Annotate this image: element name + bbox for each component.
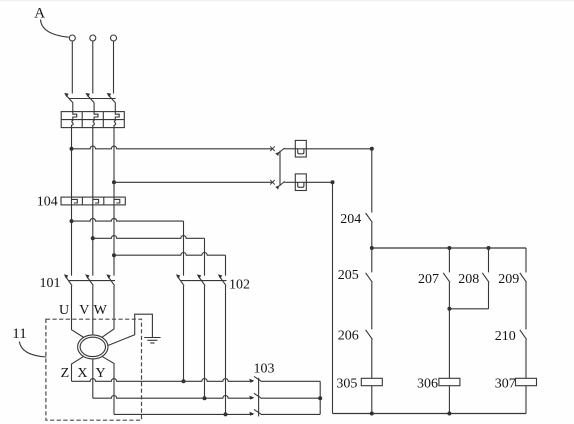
label 209: [498, 272, 519, 287]
contactor 102 pole 3: [218, 274, 226, 285]
label V: [79, 303, 89, 318]
contactor 101 pole 3: [106, 274, 114, 285]
wire tap C: [114, 253, 226, 276]
leader curve to terminal A: [41, 20, 69, 38]
terminal L3: [111, 35, 117, 41]
junction FU1 corner: [370, 147, 374, 151]
wire X lead: [92, 359, 94, 399]
contact 204: [366, 213, 373, 223]
motor M inner: [80, 337, 105, 356]
disconnect linkage bar: [69, 98, 116, 100]
wire branch1 to junction: [371, 223, 373, 248]
wire L1 drop: [71, 41, 73, 93]
contactor 103 linkage: [258, 378, 260, 417]
control feed contact lower: [270, 180, 295, 190]
wire FU2 to rail: [306, 181, 332, 183]
junction tap B: [91, 236, 95, 240]
svg-text:102: 102: [229, 277, 250, 292]
wire tap A: [72, 218, 184, 275]
svg-text:V: V: [79, 303, 89, 318]
label 206: [338, 329, 359, 344]
node A label: [34, 6, 45, 22]
wire 206 upper: [371, 282, 373, 329]
svg-text:11: 11: [12, 326, 26, 342]
contactor 102 pole 1: [176, 274, 184, 285]
svg-text:209: 209: [498, 272, 519, 287]
svg-text:101: 101: [40, 276, 61, 291]
label 11: [12, 326, 26, 342]
wire phase2 mid: [92, 128, 94, 198]
junction 102-2: [203, 396, 207, 400]
label 101: [40, 276, 61, 291]
label 103: [254, 361, 275, 376]
svg-text:205: 205: [338, 268, 359, 283]
coil 306: [439, 378, 460, 385]
junction 207 join: [447, 307, 451, 311]
coil 307: [516, 378, 537, 385]
label X: [77, 366, 87, 381]
svg-text:306: 306: [417, 377, 438, 392]
wire 207-208 join: [449, 308, 488, 310]
label Y: [96, 366, 106, 381]
wire 208 upper: [488, 248, 490, 272]
svg-text:210: 210: [495, 329, 516, 344]
contact 205: [366, 273, 373, 283]
svg-text:W: W: [94, 303, 108, 318]
svg-text:206: 206: [338, 329, 359, 344]
wire 306 to bus: [448, 386, 450, 414]
wire phase1 mid: [71, 128, 73, 198]
fuse block 104 outline: [61, 197, 125, 205]
contact 206: [366, 330, 373, 340]
wire 209 upper: [525, 248, 527, 272]
label W: [94, 303, 108, 318]
wire L2 drop: [92, 41, 94, 93]
terminal L1: [69, 35, 75, 41]
svg-text:Z: Z: [61, 366, 70, 381]
disconnect switch pole 2: [85, 93, 94, 112]
label 207: [418, 272, 439, 287]
junction phase1 control tap: [70, 147, 74, 151]
breaker S-element pole 3: [114, 112, 119, 128]
svg-text:104: 104: [37, 195, 58, 210]
svg-text:305: 305: [336, 377, 357, 392]
junction row dot 2: [447, 246, 451, 250]
wire junction row: [372, 247, 526, 249]
fuse FU1: [295, 140, 306, 157]
junction tap C: [112, 253, 116, 257]
wire phase2 lower: [92, 205, 94, 276]
wire bottom bus: [333, 413, 527, 415]
wire Z line: [72, 379, 253, 382]
junction tap A: [70, 219, 74, 223]
motor enclosure dashed box: [46, 319, 142, 420]
fuse FU2: [295, 174, 306, 191]
wire 306 feed: [448, 309, 450, 379]
wire 207 upper: [448, 248, 450, 272]
label 306: [417, 377, 438, 392]
junction bus 306: [447, 412, 451, 416]
wire branch1 upper: [371, 149, 373, 213]
label 210: [495, 329, 516, 344]
svg-text:U: U: [59, 303, 69, 318]
contactor 102 linkage: [181, 280, 227, 282]
wire control feed 1: [72, 146, 273, 149]
fuse 104 element 1: [72, 197, 78, 205]
label 305: [336, 377, 357, 392]
wire phase3 mid: [113, 128, 115, 198]
wire phase1 lower: [71, 205, 73, 276]
contact 208: [482, 273, 489, 283]
label 307: [495, 377, 516, 392]
label 104: [37, 195, 58, 210]
wire Y line: [114, 413, 253, 415]
motor M outer: [78, 335, 108, 359]
svg-text:X: X: [77, 366, 87, 381]
wire 205 upper: [371, 248, 373, 272]
label 102: [229, 277, 250, 292]
junction 102-1: [182, 379, 186, 383]
svg-text:103: 103: [254, 361, 275, 376]
label 205: [338, 268, 359, 283]
contactor 103 pole 3: [249, 410, 261, 416]
svg-text:204: 204: [340, 212, 361, 227]
junction row dot 1: [370, 246, 374, 250]
fuse 104 element 3: [114, 197, 120, 205]
junction row dot 3: [487, 246, 491, 250]
star point bus: [319, 381, 321, 414]
wire 103 output mid: [261, 397, 321, 399]
junction phase3 control tap: [112, 180, 116, 184]
label Z: [61, 366, 70, 381]
terminal L2: [90, 35, 96, 41]
control feed contacts linkage: [279, 151, 281, 186]
svg-text:208: 208: [458, 272, 479, 287]
wire Z lead: [72, 356, 85, 381]
svg-text:Y: Y: [96, 366, 106, 381]
wire 209 lower: [525, 282, 527, 329]
contactor 101 pole 2: [85, 274, 93, 285]
contactor 101 pole 1: [64, 274, 72, 285]
wire 103 output bottom: [261, 413, 321, 415]
wire 103 output top: [261, 380, 321, 382]
wire control feed 2: [114, 181, 272, 183]
control feed contact upper: [270, 146, 295, 156]
svg-text:307: 307: [495, 377, 516, 392]
breaker block outline: [61, 112, 124, 128]
wire FU1 to branch: [306, 148, 372, 150]
contactor 103 pole 1: [249, 376, 261, 382]
wire phase3 lower: [113, 205, 115, 276]
junction bus 305: [370, 412, 374, 416]
fuse 104 element 2: [93, 197, 99, 205]
wire U lead: [72, 286, 85, 338]
wire Y lead: [102, 356, 114, 414]
contactor 103 pole 2: [249, 393, 261, 399]
contact 210: [520, 330, 527, 340]
wire 208 lower: [488, 282, 490, 308]
contact 207: [443, 273, 450, 283]
wire 307 to bus: [525, 386, 527, 414]
disconnect switch pole 3: [107, 93, 116, 112]
wire 102-2 drop: [204, 286, 206, 399]
leader curve 11: [19, 342, 46, 358]
ground: [144, 338, 160, 344]
breaker S-element pole 1: [72, 112, 77, 128]
wire 305 to bus: [371, 386, 373, 414]
contactor 102 pole 2: [197, 274, 205, 285]
coil 305: [361, 378, 382, 385]
wire motor to ground: [108, 314, 153, 345]
svg-text:A: A: [34, 6, 45, 22]
label 204: [340, 212, 361, 227]
junction star mid: [318, 396, 322, 400]
wire 102-3 drop: [225, 286, 227, 415]
wire 102-1 drop: [183, 286, 185, 382]
junction FU2 corner: [331, 180, 335, 184]
contactor 101 linkage: [69, 280, 115, 282]
disconnect switch pole 1: [64, 93, 73, 112]
wire left rail: [332, 182, 334, 413]
wire V lead: [92, 286, 94, 336]
wire 207 lower: [448, 282, 450, 308]
wire tap B: [93, 236, 205, 276]
contact 209: [520, 273, 527, 283]
label U: [59, 303, 69, 318]
wire 206 to coil: [371, 339, 373, 378]
wire 210 to coil: [525, 339, 527, 378]
breaker S-element pole 2: [93, 112, 98, 128]
wire W lead: [102, 286, 114, 338]
junction 102-3: [224, 412, 228, 416]
wire X line: [93, 396, 253, 399]
wire L3 drop: [113, 41, 115, 93]
label 208: [458, 272, 479, 287]
svg-text:207: 207: [418, 272, 439, 287]
